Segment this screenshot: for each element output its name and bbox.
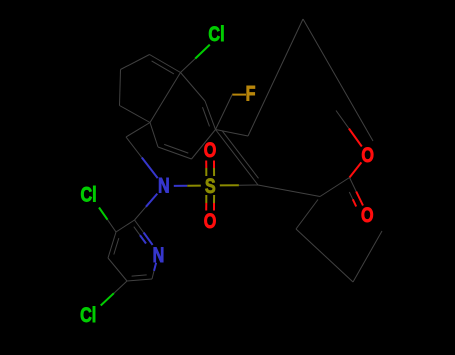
bond W-T — [248, 19, 303, 136]
bond Cl2-C3 — [99, 208, 108, 220]
bond Ccb-Oest — [350, 162, 362, 177]
svg-text:O: O — [361, 203, 374, 227]
bond CF-W — [216, 130, 249, 137]
wire ring edge lower-left — [296, 229, 353, 282]
bond Ns-C2 — [146, 194, 157, 207]
wire ring edge lower-right — [353, 231, 382, 282]
wire ring edge to E — [296, 200, 318, 230]
bond A-CF — [216, 130, 259, 186]
bond C4-C5 — [108, 258, 127, 281]
bond Ns-S — [174, 185, 188, 187]
svg-text:N: N — [158, 174, 170, 198]
bond k3-k4 — [158, 147, 192, 159]
bond Ns-CH2 — [142, 158, 158, 179]
bond Npy-C2 — [144, 233, 153, 245]
svg-text:Cl: Cl — [80, 303, 96, 327]
bond X-Vbl — [120, 106, 151, 123]
bond Oest-CH3e — [349, 129, 362, 147]
bond CCl-X — [150, 73, 181, 123]
svg-text:F: F — [246, 81, 256, 105]
bond Cl3-C5 — [101, 293, 114, 305]
bond Cl1-CCl — [195, 45, 210, 59]
bond k4-X — [150, 123, 158, 148]
bond S-Odn — [205, 195, 207, 203]
svg-text:Cl: Cl — [208, 22, 224, 46]
bond C6-Npy — [152, 271, 154, 279]
svg-text:O: O — [204, 209, 217, 233]
bond Ccb-Ocb — [350, 178, 357, 192]
bond Vbl-Vtl — [120, 70, 121, 106]
svg-text:N: N — [153, 243, 165, 267]
bond Vtl-apex — [121, 55, 150, 70]
svg-text:O: O — [204, 138, 217, 162]
bond CCl-Vm — [181, 73, 206, 102]
wire bond F-CF lead-in — [232, 94, 246, 96]
bond E-Ccb — [320, 178, 350, 197]
bond C3-C4 — [108, 232, 116, 258]
svg-text:O: O — [361, 143, 374, 167]
bond T-Tend — [303, 19, 373, 141]
svg-text:S: S — [205, 174, 216, 198]
bond Vm-CF — [205, 101, 216, 130]
bond CF-k3 — [192, 130, 216, 160]
bond C2-C3 — [116, 220, 135, 232]
svg-text:Cl: Cl — [81, 183, 97, 207]
bond apex-CCl — [150, 55, 181, 73]
bond S-A — [220, 184, 239, 186]
bond C5-C6 — [127, 279, 152, 281]
bond S-Oup — [213, 168, 215, 176]
bond CH2-X — [126, 123, 150, 138]
bond A-E — [258, 185, 320, 197]
wire bond F-CF diagonal — [216, 95, 233, 130]
